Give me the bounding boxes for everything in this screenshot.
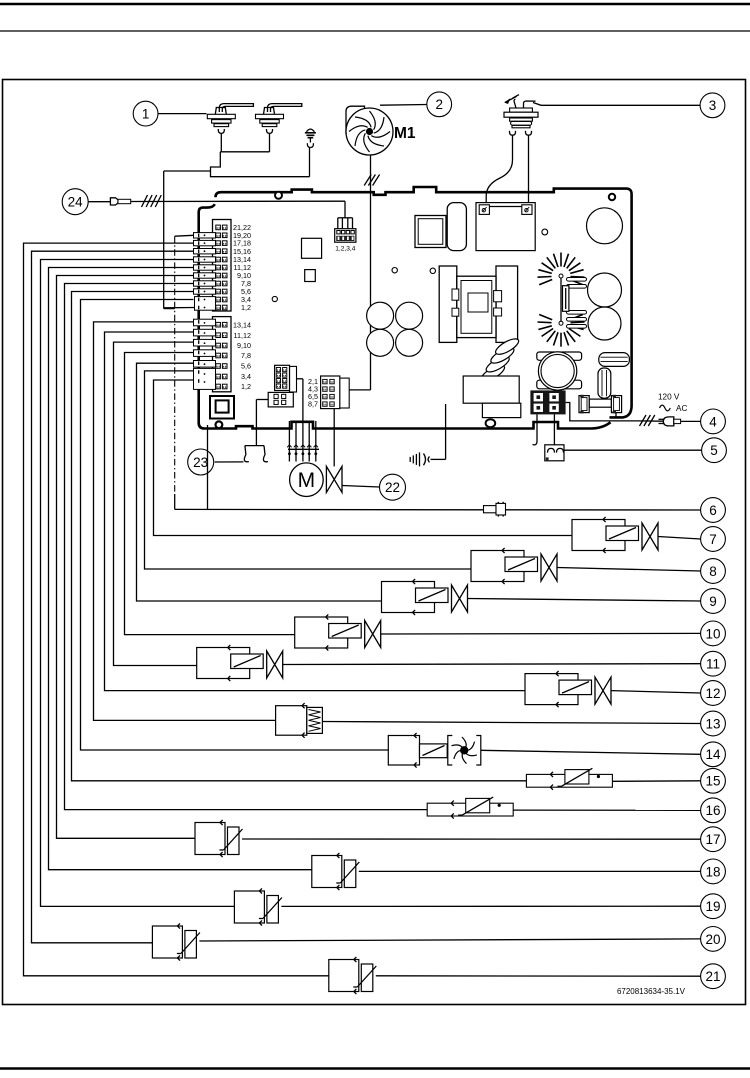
svg-text:3,4: 3,4 bbox=[241, 372, 251, 381]
heater coil (13) bbox=[276, 703, 701, 738]
callout 3 bbox=[700, 93, 725, 118]
solenoid valve (10) bbox=[295, 614, 701, 650]
wire to component 8 bbox=[145, 371, 472, 569]
shield chain line bbox=[174, 236, 176, 494]
rectangle component below transformer bbox=[463, 376, 519, 403]
wire to component 7 bbox=[154, 380, 573, 536]
row 1,2 wire bbox=[164, 307, 195, 309]
flame-rod screen symbol bbox=[410, 404, 445, 466]
wire harness plugs X1 bbox=[194, 233, 216, 311]
wire to component 19 bbox=[41, 260, 235, 907]
connector 1,2,3,4 bbox=[335, 229, 356, 243]
svg-text:5: 5 bbox=[710, 443, 718, 458]
toroid clamp bars bbox=[537, 352, 582, 360]
small square component bbox=[305, 270, 316, 282]
wire to component 16 bbox=[65, 284, 428, 810]
wire row1,2 to bundle bbox=[164, 170, 211, 172]
svg-text:20: 20 bbox=[705, 932, 720, 947]
mounting hole top-left bbox=[275, 192, 282, 199]
callout 23 bbox=[188, 449, 214, 475]
svg-text:2: 2 bbox=[435, 97, 443, 112]
pump (14) bbox=[388, 733, 700, 768]
cable bundle outline bbox=[220, 151, 269, 153]
callout 24 bbox=[62, 189, 88, 215]
inline sensor (15) bbox=[526, 768, 700, 790]
transformer bbox=[439, 266, 517, 342]
leader line 2 bbox=[380, 104, 427, 107]
fork symbol (23) bbox=[244, 400, 268, 462]
ground electrode bbox=[305, 129, 316, 177]
svg-text:16: 16 bbox=[705, 803, 720, 818]
connector 2x5 bbox=[268, 365, 296, 407]
mains plug symbol bbox=[663, 417, 674, 426]
mounting hole top-right bbox=[609, 194, 615, 200]
callout 16 bbox=[701, 798, 726, 823]
wire to component 15 bbox=[72, 292, 527, 781]
rounded pill component bbox=[447, 203, 466, 251]
NTC sensor (17) bbox=[195, 820, 701, 857]
inductor spring bbox=[479, 336, 520, 384]
NTC sensor (20) bbox=[152, 923, 700, 960]
svg-text:1,2,3,4: 1,2,3,4 bbox=[335, 245, 355, 252]
svg-text:14: 14 bbox=[705, 747, 721, 762]
wire to component 20 bbox=[32, 251, 194, 943]
fan wire down with hatch bbox=[370, 155, 372, 390]
callout 21 bbox=[701, 964, 726, 989]
svg-text:17: 17 bbox=[705, 832, 720, 847]
callout 13 bbox=[701, 711, 726, 736]
callout 22 bbox=[380, 474, 406, 500]
callout 10 bbox=[701, 621, 726, 646]
wire to component 13 bbox=[94, 322, 276, 721]
wire to component 12 bbox=[105, 332, 528, 691]
wire to component 18 bbox=[49, 268, 312, 870]
small hole left-mid bbox=[272, 296, 277, 301]
inline sensor (16) bbox=[427, 797, 700, 819]
wire to component 10 bbox=[125, 353, 295, 635]
wire 2x5 to motor bundle bbox=[297, 378, 303, 380]
mounting hole bottom-left bbox=[216, 421, 223, 428]
toroid coil bbox=[538, 352, 576, 390]
svg-text:12: 12 bbox=[705, 686, 720, 701]
wire to component 9 bbox=[137, 363, 382, 601]
connector 8,7 bbox=[308, 376, 349, 409]
svg-text:9: 9 bbox=[709, 594, 717, 609]
wire to component 14 bbox=[81, 300, 389, 751]
motor supply wires bbox=[287, 379, 319, 462]
svg-text:6720813634-35.1V: 6720813634-35.1V bbox=[617, 987, 686, 996]
solenoid valve (7) bbox=[572, 517, 701, 553]
big circle 3 bbox=[588, 307, 621, 340]
wire from chain to sensor 6 bbox=[175, 508, 484, 510]
svg-text:23: 23 bbox=[193, 455, 208, 470]
callout 19 bbox=[701, 894, 726, 919]
capacitor vertical pill bbox=[598, 368, 611, 398]
electrolytic capacitor big circle 1 bbox=[587, 208, 623, 244]
small holes center bbox=[392, 268, 397, 273]
callout 18 bbox=[701, 859, 726, 884]
svg-text:7: 7 bbox=[709, 532, 717, 547]
capacitor pair circles (2x2) bbox=[367, 302, 394, 329]
small rectangle component bbox=[482, 403, 520, 417]
svg-text:M: M bbox=[298, 469, 316, 492]
svg-text:8: 8 bbox=[709, 564, 717, 579]
callout 9 bbox=[701, 589, 726, 614]
solenoid valve (12) bbox=[525, 671, 701, 707]
electrode (3) wires to board bbox=[528, 135, 530, 205]
wire to connector 1,2,3,4 bbox=[344, 201, 346, 218]
svg-text:9,10: 9,10 bbox=[237, 341, 251, 350]
wire harness plugs X2 bbox=[194, 319, 216, 389]
leader line 24 + faston plug bbox=[88, 201, 110, 203]
heatsink lower radial fins bbox=[538, 315, 585, 347]
svg-text:19: 19 bbox=[705, 899, 720, 914]
ground link line bbox=[163, 171, 165, 309]
capacitor horizontal pill bbox=[599, 353, 630, 367]
svg-text:11: 11 bbox=[706, 657, 720, 672]
square component upper-left bbox=[302, 238, 322, 258]
relay / fuse holder bbox=[579, 395, 622, 414]
callout 5 bbox=[702, 438, 727, 463]
svg-text:21: 21 bbox=[705, 969, 720, 984]
svg-text:120 V: 120 V bbox=[658, 393, 680, 402]
motor M bbox=[290, 463, 324, 497]
page rules bbox=[0, 3, 750, 6]
wire to component 11 bbox=[114, 342, 197, 665]
valve at motor (22) bbox=[333, 409, 335, 467]
nested rectangle component bbox=[415, 216, 446, 248]
svg-text:5,6: 5,6 bbox=[241, 362, 251, 371]
callout 6 bbox=[701, 498, 726, 523]
solenoid valve (9) bbox=[382, 579, 701, 615]
leader line 3 bbox=[533, 103, 700, 106]
big circle 2 bbox=[588, 273, 622, 307]
nested square component (buzzer) bbox=[210, 396, 234, 419]
svg-text:M1: M1 bbox=[394, 125, 416, 142]
gas valve terminal box bbox=[476, 203, 535, 251]
svg-text:1: 1 bbox=[142, 106, 150, 121]
callout 4 bbox=[701, 409, 726, 434]
component 5 (2-pole plug) bbox=[545, 445, 564, 461]
callout 8 bbox=[701, 559, 726, 584]
callout 15 bbox=[701, 768, 726, 793]
callout 20 bbox=[701, 927, 726, 952]
callout 7 bbox=[701, 527, 726, 552]
svg-text:13,14: 13,14 bbox=[233, 320, 251, 329]
power connector (black 2x2) bbox=[530, 390, 565, 414]
connector block X2 (13,14..1,2) bbox=[213, 317, 232, 392]
svg-text:8,7: 8,7 bbox=[308, 399, 318, 408]
svg-text:3: 3 bbox=[709, 98, 717, 113]
svg-text:15: 15 bbox=[705, 774, 720, 789]
wire with curl from connector bbox=[536, 414, 538, 441]
spark electrode 2 bbox=[256, 104, 302, 152]
heatsink comb bars bbox=[567, 278, 587, 329]
callout 17 bbox=[701, 827, 726, 852]
svg-text:1,2: 1,2 bbox=[241, 303, 251, 312]
callout 12 bbox=[701, 681, 726, 706]
svg-text:22: 22 bbox=[385, 480, 400, 495]
NTC sensor (18) bbox=[312, 853, 701, 890]
heatsink upper radial fins bbox=[538, 253, 585, 285]
callout 14 bbox=[701, 742, 726, 767]
row 19,20 wire to chain bbox=[175, 234, 194, 237]
svg-text:24: 24 bbox=[68, 195, 84, 210]
AC mains wire bbox=[566, 403, 638, 421]
flame electrode (3) bbox=[504, 95, 538, 136]
connector block X1 (21,22..1,2) bbox=[213, 220, 232, 312]
control board outline bbox=[221, 187, 632, 417]
wire to component 17 bbox=[57, 276, 196, 839]
callout 2 bbox=[427, 92, 452, 117]
sensor plug (6) bbox=[484, 502, 506, 517]
mating line segments on board edge bbox=[198, 234, 200, 383]
wire to component 21 bbox=[24, 243, 329, 976]
wire to component 5 bbox=[553, 414, 555, 444]
svg-text:10: 10 bbox=[705, 626, 720, 641]
solenoid valve (11) bbox=[197, 645, 701, 681]
solenoid valve (8) bbox=[471, 548, 701, 584]
svg-text:4: 4 bbox=[709, 414, 717, 429]
svg-text:13: 13 bbox=[705, 716, 720, 731]
callout 1 bbox=[133, 101, 158, 126]
transistor on heatsink bbox=[560, 278, 562, 321]
leader line 1 bbox=[158, 113, 207, 115]
wire 2x5 plug to fork 23 bbox=[256, 399, 268, 401]
svg-text:6: 6 bbox=[709, 503, 717, 518]
oval foot on bottom edge bbox=[486, 419, 496, 427]
NTC sensor (19) bbox=[234, 888, 700, 925]
callout 11 bbox=[701, 651, 726, 676]
svg-text:18: 18 bbox=[705, 864, 720, 879]
svg-text:1,2: 1,2 bbox=[241, 382, 251, 391]
svg-text:11,12: 11,12 bbox=[234, 331, 251, 340]
svg-text:AC: AC bbox=[676, 404, 687, 413]
svg-text:7,8: 7,8 bbox=[241, 351, 251, 360]
NTC sensor (21) bbox=[329, 957, 701, 994]
spark electrode 1 bbox=[207, 104, 253, 152]
fan wire to connector 8,7 bbox=[349, 389, 370, 391]
fan M1 bbox=[346, 106, 416, 155]
